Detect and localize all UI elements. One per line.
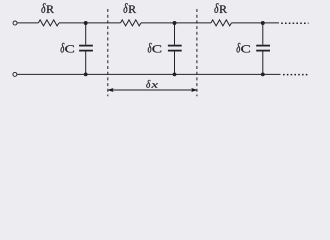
node junction dot top of C2 bbox=[173, 21, 177, 25]
wire top from R1 to R2 bbox=[59, 22, 121, 24]
resistor R1 bbox=[38, 20, 59, 26]
label delta-R for R3 bbox=[214, 3, 227, 13]
label delta-C for C3 bbox=[237, 43, 250, 53]
wire bottom rail bbox=[17, 73, 281, 75]
capacitor C3 bbox=[256, 23, 270, 74]
wire continuation dots bottom-right bbox=[283, 74, 309, 76]
label delta-R for R1 bbox=[41, 3, 54, 13]
wire top lead from terminal to R1 bbox=[17, 22, 38, 24]
node junction dot bottom of C2 bbox=[173, 73, 177, 77]
resistor R2 bbox=[121, 20, 142, 26]
dashed section boundary line right bbox=[196, 9, 198, 96]
node junction dot bottom of C1 bbox=[84, 73, 88, 77]
label delta-R for R2 bbox=[124, 3, 137, 13]
resistor R3 bbox=[211, 20, 232, 26]
wire continuation dots top-right bbox=[281, 22, 308, 24]
wire top from R2 to R3 bbox=[141, 22, 211, 24]
label delta-x bbox=[146, 80, 158, 88]
terminal bottom-left bbox=[13, 72, 17, 76]
dashed section boundary line left bbox=[107, 9, 109, 96]
wire top from R3 to continuation bbox=[232, 22, 280, 24]
label delta-C for C2 bbox=[148, 43, 161, 53]
label delta-C for C1 bbox=[61, 43, 74, 53]
terminal top-left bbox=[13, 21, 17, 25]
capacitor C2 bbox=[168, 23, 182, 74]
capacitor C1 bbox=[79, 23, 93, 74]
dimension arrow delta-x bbox=[107, 88, 198, 92]
node junction dot bottom of C3 bbox=[261, 73, 265, 77]
node junction dot top of C3 bbox=[261, 21, 265, 25]
node junction dot top of C1 bbox=[84, 21, 88, 25]
